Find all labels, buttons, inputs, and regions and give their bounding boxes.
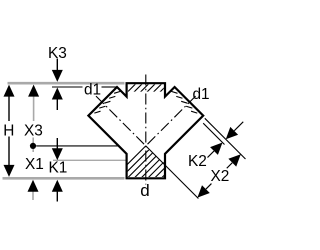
svg-text:d1: d1 — [193, 86, 210, 103]
svg-text:X2: X2 — [211, 168, 230, 185]
svg-text:X1: X1 — [25, 156, 44, 173]
svg-text:H: H — [3, 122, 14, 139]
svg-text:d1: d1 — [84, 82, 101, 99]
svg-text:K1: K1 — [49, 160, 68, 177]
svg-text:X3: X3 — [24, 122, 43, 139]
svg-text:K2: K2 — [188, 153, 207, 170]
svg-text:K3: K3 — [48, 45, 67, 62]
svg-text:d: d — [140, 181, 149, 200]
